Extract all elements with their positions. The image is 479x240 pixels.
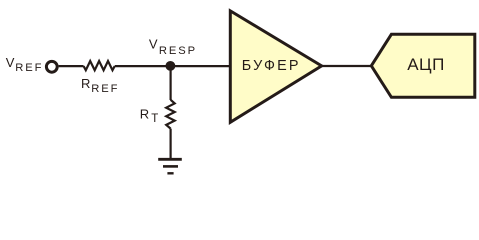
junction dot at VRESP node xyxy=(166,61,176,71)
svg-text:АЦП: АЦП xyxy=(407,55,445,74)
wire from RREF through node to buffer input xyxy=(115,65,230,67)
op-amp buffer U1 (БУФЕР) xyxy=(230,11,321,122)
wire from terminal to resistor RREF xyxy=(59,65,84,67)
svg-text:БУФЕР: БУФЕР xyxy=(242,58,301,74)
svg-text:R: R xyxy=(140,106,149,121)
resistor RT (vertical zigzag) xyxy=(166,100,175,129)
svg-text:T: T xyxy=(151,113,158,125)
ground xyxy=(158,159,182,173)
svg-text:V: V xyxy=(6,55,15,70)
terminal (open circle) for VREF xyxy=(46,61,57,72)
svg-text:REF: REF xyxy=(91,83,119,95)
svg-text:V: V xyxy=(149,37,158,52)
wire from RT to ground xyxy=(170,129,172,160)
svg-text:RESP: RESP xyxy=(159,45,197,57)
wire from buffer output to ADC xyxy=(322,65,372,67)
resistor RREF (zigzag) xyxy=(84,61,115,70)
svg-text:R: R xyxy=(81,76,90,91)
wire from node down to resistor RT xyxy=(170,66,172,100)
ADC block (АЦП pentagon) xyxy=(371,34,475,97)
svg-text:REF: REF xyxy=(15,62,43,74)
